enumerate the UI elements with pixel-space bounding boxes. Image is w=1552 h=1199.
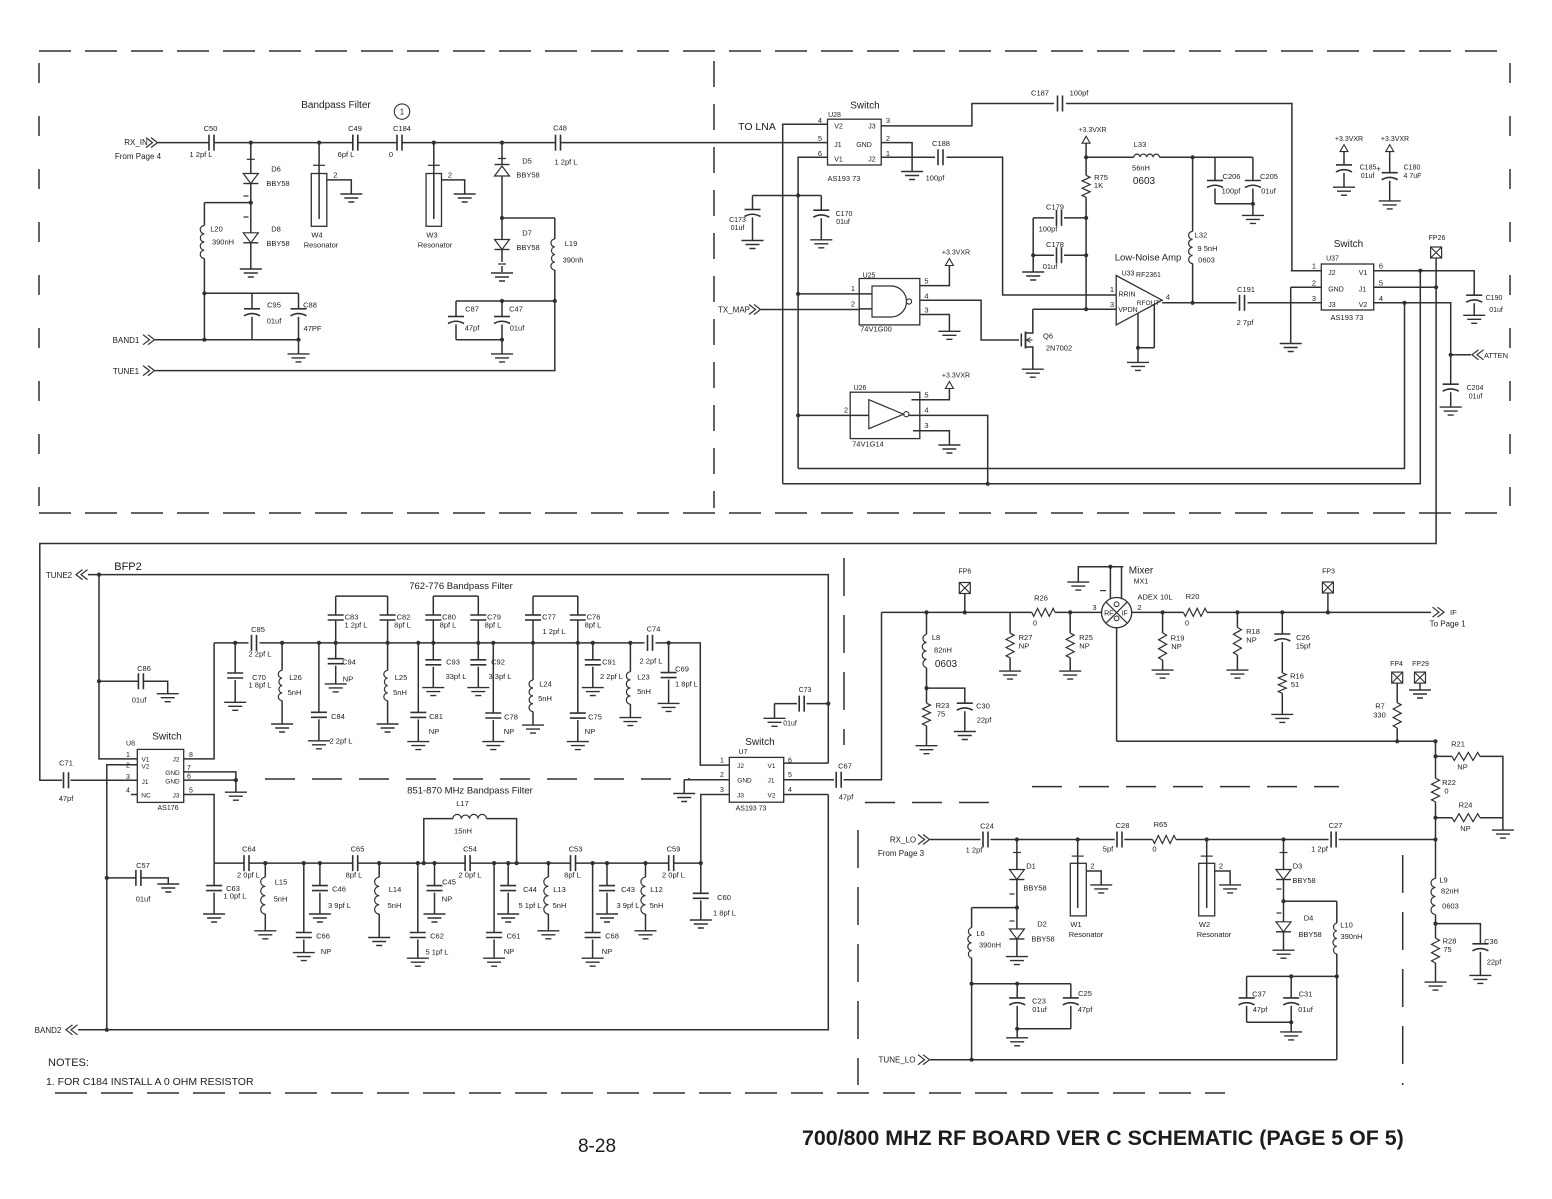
inductor L15 <box>264 863 266 877</box>
capacitor C43 <box>606 863 608 886</box>
svg-text:AS176: AS176 <box>157 805 178 812</box>
page border dashed left <box>38 63 40 506</box>
capacitor C93 <box>432 643 434 660</box>
ground at U37 GND <box>1280 344 1302 352</box>
wire U26 pin4 output <box>909 415 988 483</box>
resonator W1 <box>1077 840 1079 864</box>
svg-text:75: 75 <box>937 710 945 719</box>
svg-text:BAND2: BAND2 <box>35 1026 62 1035</box>
capacitor C188 <box>938 149 943 165</box>
wire V1 line to U26 pin2 <box>798 414 869 416</box>
svg-text:2 0pf L: 2 0pf L <box>662 871 685 880</box>
svg-text:ADEX 10L: ADEX 10L <box>1137 593 1172 602</box>
svg-text:NOTES:: NOTES: <box>48 1057 89 1069</box>
svg-text:AS193 73: AS193 73 <box>1331 313 1364 322</box>
svg-text:2: 2 <box>1312 278 1316 287</box>
svg-text:Switch: Switch <box>1334 239 1363 250</box>
svg-text:5: 5 <box>788 772 792 779</box>
ground under C78 <box>482 742 504 750</box>
svg-text:C53: C53 <box>569 845 583 854</box>
svg-text:FP3: FP3 <box>1322 569 1335 576</box>
svg-text:C37: C37 <box>1252 990 1266 999</box>
ground under C91 <box>582 688 604 696</box>
svg-text:6: 6 <box>818 149 822 158</box>
power +3.3VXR at C185 <box>1340 145 1348 152</box>
svg-text:From Page 3: From Page 3 <box>878 849 925 858</box>
svg-text:+3.3VXR: +3.3VXR <box>1335 136 1363 143</box>
resistor R24 <box>1436 817 1453 819</box>
svg-text:3: 3 <box>886 116 890 125</box>
svg-text:TUNE_LO: TUNE_LO <box>879 1056 916 1065</box>
inductor L23 <box>629 643 631 672</box>
svg-text:Low-Noise Amp: Low-Noise Amp <box>1115 253 1182 264</box>
svg-text:5nH: 5nH <box>553 901 567 910</box>
svg-text:V1: V1 <box>1359 270 1368 277</box>
svg-text:L13: L13 <box>553 885 566 894</box>
wire C23 C25 bottoms <box>1017 1029 1071 1038</box>
capacitor C31 <box>1290 976 1292 998</box>
capacitor C50 <box>209 135 214 151</box>
svg-text:From Page 4: From Page 4 <box>115 152 162 161</box>
switch U7 body <box>729 757 783 802</box>
capacitor C23 <box>1016 984 1018 998</box>
ground under C204 <box>1440 407 1462 415</box>
svg-text:BBY58: BBY58 <box>516 171 539 180</box>
ground under C173 <box>742 241 764 249</box>
ground under C70 <box>224 702 246 710</box>
capacitor C205 <box>1252 157 1254 180</box>
svg-text:0603: 0603 <box>1133 176 1156 187</box>
wire TUNE_LO line <box>930 1059 1337 1061</box>
wire C188 to LNA RRIN <box>947 157 1117 295</box>
dashed divider between RX filter and LNA sections <box>713 61 715 508</box>
svg-text:C61: C61 <box>507 932 521 941</box>
capacitor C91 <box>592 643 594 660</box>
svg-text:5: 5 <box>924 277 928 286</box>
svg-text:BBY58: BBY58 <box>266 239 289 248</box>
capacitor C75 <box>577 643 579 713</box>
capacitor C66 <box>303 863 305 932</box>
capacitor C62 <box>417 863 419 932</box>
svg-text:NP: NP <box>1171 642 1181 651</box>
wire U37 pin6 V1 to C190 <box>1374 271 1475 296</box>
svg-text:01uf: 01uf <box>1043 262 1059 271</box>
ground at U25 pin3 <box>938 331 960 339</box>
svg-text:2: 2 <box>1137 603 1141 612</box>
ground under C43 <box>596 914 618 922</box>
wire RX_IN main line <box>158 142 828 144</box>
wire rail to C95 C88 <box>204 292 298 294</box>
svg-text:0: 0 <box>389 150 393 159</box>
svg-text:C62: C62 <box>430 932 444 941</box>
power +3.3VXR at U26 <box>945 382 953 389</box>
svg-text:C179: C179 <box>1046 203 1064 212</box>
note callout circle 1 <box>394 104 409 119</box>
capacitor C45 <box>434 863 436 886</box>
wire bypass rail C173 C170 <box>753 195 822 197</box>
svg-text:C94: C94 <box>342 658 356 667</box>
svg-text:L14: L14 <box>389 885 402 894</box>
capacitor C204 <box>1443 383 1459 385</box>
ground under C46 <box>309 914 331 922</box>
svg-text:47pf: 47pf <box>465 324 481 333</box>
svg-text:U26: U26 <box>854 385 867 392</box>
wire mixer LO pin down <box>1116 628 1118 742</box>
svg-text:L15: L15 <box>275 878 288 887</box>
ground under Q6 source <box>1022 369 1044 377</box>
ground under C94 <box>325 684 347 692</box>
inverter U26 74V1G14 <box>850 392 920 438</box>
svg-text:8pf L: 8pf L <box>346 871 363 880</box>
svg-text:5nH: 5nH <box>288 688 302 697</box>
svg-text:5 1pf L: 5 1pf L <box>426 948 449 957</box>
capacitor C82 <box>387 620 389 643</box>
svg-text:U33: U33 <box>1122 271 1135 278</box>
wire U25 pin1 from V1 line <box>798 293 859 295</box>
ground under C63 <box>203 914 225 922</box>
svg-text:5nH: 5nH <box>388 901 402 910</box>
svg-text:5: 5 <box>924 391 928 400</box>
wire RF line into mixer <box>882 611 1102 613</box>
svg-text:0: 0 <box>1152 845 1156 854</box>
capacitor C79 <box>477 620 479 643</box>
svg-text:C191: C191 <box>1237 285 1255 294</box>
wire U8 pin5 J3 to bottom filter rail <box>184 795 214 864</box>
svg-text:22pf: 22pf <box>977 716 993 725</box>
svg-text:C64: C64 <box>242 845 256 854</box>
resistor R19 <box>1162 612 1164 633</box>
svg-text:3 3pf L: 3 3pf L <box>489 672 512 681</box>
svg-text:GND: GND <box>1328 287 1344 294</box>
svg-text:1: 1 <box>1110 285 1114 294</box>
resistor R23 <box>923 703 931 726</box>
nand gate U25 74V1G00 <box>859 279 920 325</box>
wire rail C87 C47 to L19 <box>456 300 555 302</box>
svg-text:4: 4 <box>924 406 928 415</box>
wire U28 pin2 GND <box>881 143 912 172</box>
svg-text:0: 0 <box>1185 619 1189 628</box>
wire D3 D4 junction to L10 <box>1284 900 1337 902</box>
ground at C57 <box>157 884 179 892</box>
svg-text:5: 5 <box>189 788 193 795</box>
resistor R18 <box>1236 612 1238 627</box>
wire rail C23 C25 <box>972 983 1071 985</box>
svg-text:GND: GND <box>165 770 180 777</box>
svg-text:1 8pf L: 1 8pf L <box>675 680 698 689</box>
svg-text:C188: C188 <box>932 139 950 148</box>
wire VPDN to Q6 drain and R75 <box>1033 308 1116 310</box>
svg-text:L12: L12 <box>650 885 663 894</box>
ground under C45 <box>424 914 446 922</box>
capacitor C68 <box>592 863 594 932</box>
svg-text:8pf L: 8pf L <box>394 621 411 630</box>
wire W3 pin 2 to ground <box>442 180 465 194</box>
inductor L25 <box>387 643 389 671</box>
dashed top edge of mixer IF section <box>1032 786 1339 788</box>
ground under D8 <box>240 269 262 277</box>
resonator W2 <box>1206 840 1208 864</box>
svg-text:RRIN: RRIN <box>1118 292 1135 299</box>
svg-text:4: 4 <box>924 291 928 300</box>
svg-text:GND: GND <box>856 142 872 149</box>
svg-text:74V1G00: 74V1G00 <box>860 325 892 334</box>
wire U37 pin2 GND to ground <box>1291 287 1322 343</box>
svg-text:C190: C190 <box>1486 295 1503 302</box>
inductor L14 <box>378 863 380 877</box>
svg-text:+3.3VXR: +3.3VXR <box>1381 136 1409 143</box>
ground at U28 pin2 <box>901 172 923 180</box>
svg-text:U28: U28 <box>828 112 841 119</box>
svg-text:L9: L9 <box>1439 876 1447 885</box>
svg-text:C206: C206 <box>1223 172 1241 181</box>
wire U37 pin1 J2 <box>1291 270 1322 272</box>
wire LNA output RFOUT <box>1162 302 1236 304</box>
capacitor C81 <box>417 643 419 713</box>
ground under R28 <box>1425 982 1447 990</box>
svg-text:C73: C73 <box>799 687 812 694</box>
ground under R23 <box>916 746 938 754</box>
wire rail C37 C31 <box>1247 975 1337 977</box>
ground under R25 <box>1059 671 1081 679</box>
svg-text:2 2pf L: 2 2pf L <box>330 737 353 746</box>
svg-text:BBY58: BBY58 <box>266 179 289 188</box>
svg-text:U37: U37 <box>1326 256 1339 263</box>
port IF To Page 1 <box>1433 607 1445 617</box>
svg-text:RX_LO: RX_LO <box>890 836 916 845</box>
svg-text:C184: C184 <box>393 124 411 133</box>
svg-text:D6: D6 <box>271 165 281 174</box>
wire W4 pin 2 to ground <box>327 180 352 194</box>
wire U8 pin4 NC stub <box>131 794 137 796</box>
capacitor C44 <box>507 863 509 886</box>
svg-text:R21: R21 <box>1451 740 1465 749</box>
inductor L20 <box>203 203 205 226</box>
resonator W4 <box>318 143 320 174</box>
svg-text:C44: C44 <box>523 885 537 894</box>
wire C187 to U37 J2 <box>1066 104 1292 271</box>
ground under C30 <box>954 732 976 740</box>
svg-text:BFP2: BFP2 <box>114 561 142 573</box>
svg-text:01uf: 01uf <box>1469 394 1483 401</box>
ground at mixer top <box>1067 582 1089 590</box>
svg-text:D2: D2 <box>1037 920 1047 929</box>
svg-text:0603: 0603 <box>1198 256 1215 265</box>
ground at W3 pin 2 <box>454 194 476 202</box>
svg-text:VPDN: VPDN <box>1118 307 1137 314</box>
svg-text:390nH: 390nH <box>979 941 1001 950</box>
capacitor C73 <box>775 703 798 705</box>
ground under L12 <box>635 931 657 939</box>
svg-text:5: 5 <box>1379 278 1383 287</box>
wire mixer IF output line <box>1132 611 1431 613</box>
ground under R19 <box>1152 670 1174 678</box>
dashed top edge of LO section <box>865 802 1000 804</box>
svg-text:4: 4 <box>1379 294 1383 303</box>
svg-text:C67: C67 <box>838 762 852 771</box>
wire U7 pin5 J1 to C67 <box>784 779 834 781</box>
svg-text:D3: D3 <box>1293 862 1303 871</box>
node junction D3 D4 <box>1281 899 1285 903</box>
svg-text:1 2pf L: 1 2pf L <box>555 158 578 167</box>
capacitor C48 <box>556 135 561 151</box>
inductor L8 <box>926 612 928 634</box>
svg-text:L32: L32 <box>1195 231 1208 240</box>
wire FP6 to RF line <box>964 594 966 613</box>
resistor R75 <box>1085 143 1087 175</box>
ground under C84 <box>308 741 330 749</box>
dashed border bottom of page <box>55 1092 1225 1094</box>
svg-text:2 0pf L: 2 0pf L <box>237 871 260 880</box>
svg-text:5nH: 5nH <box>274 895 288 904</box>
wire U28 pin1 J2 to C188 <box>881 156 935 158</box>
svg-text:C170: C170 <box>836 211 853 218</box>
ground under D2 <box>1006 957 1028 965</box>
svg-text:6: 6 <box>1379 262 1383 271</box>
svg-text:2 0pf L: 2 0pf L <box>459 871 482 880</box>
ground under L13 <box>537 931 559 939</box>
svg-text:V1: V1 <box>834 157 843 164</box>
resistor R28 <box>1435 924 1437 939</box>
svg-text:9 5nH: 9 5nH <box>1197 244 1217 253</box>
wire L33 to C206 C205 rail <box>1193 156 1253 158</box>
switch U8 body AS176 <box>137 749 183 802</box>
svg-text:100pf: 100pf <box>1039 225 1059 234</box>
svg-text:01uf: 01uf <box>1261 187 1277 196</box>
svg-text:GND: GND <box>737 777 752 784</box>
svg-text:2 7pf: 2 7pf <box>1237 318 1255 327</box>
svg-text:TUNE2: TUNE2 <box>46 571 73 580</box>
page border dashed right <box>1509 63 1511 506</box>
svg-text:47pf: 47pf <box>839 793 855 802</box>
svg-text:J1: J1 <box>142 779 149 786</box>
svg-text:5nH: 5nH <box>393 688 407 697</box>
svg-text:C57: C57 <box>136 861 150 870</box>
svg-text:IF: IF <box>1450 608 1457 617</box>
svg-text:BBY58: BBY58 <box>1292 876 1315 885</box>
svg-text:1: 1 <box>126 752 130 759</box>
svg-text:L10: L10 <box>1340 921 1353 930</box>
svg-text:C91: C91 <box>602 658 616 667</box>
wire L10 to TUNE_LO <box>1336 976 1338 1059</box>
svg-text:Switch: Switch <box>152 732 181 743</box>
resistor R65 <box>1153 836 1177 844</box>
svg-text:Bandpass Filter: Bandpass Filter <box>301 100 371 111</box>
svg-text:C30: C30 <box>976 702 990 711</box>
svg-text:01uf: 01uf <box>510 324 526 333</box>
svg-text:75: 75 <box>1443 945 1451 954</box>
capacitor C86 <box>99 680 138 682</box>
svg-text:C93: C93 <box>446 658 460 667</box>
svg-text:W3: W3 <box>426 231 437 240</box>
svg-text:C46: C46 <box>332 885 346 894</box>
svg-text:FP29: FP29 <box>1412 661 1429 668</box>
capacitor C61 <box>493 863 495 932</box>
node junction D1 D2 <box>1015 906 1019 910</box>
svg-text:C49: C49 <box>348 124 362 133</box>
resistor R16 <box>1278 673 1286 693</box>
capacitor C27 <box>1331 832 1336 848</box>
svg-text:4 7uF: 4 7uF <box>1404 173 1422 180</box>
capacitor C180 polarized <box>1389 152 1391 173</box>
wire C179 C178 common to ground <box>1032 218 1034 272</box>
svg-text:J3: J3 <box>737 792 744 799</box>
svg-text:J1: J1 <box>1359 287 1367 294</box>
svg-text:C85: C85 <box>251 625 265 634</box>
svg-text:4: 4 <box>1166 293 1170 302</box>
svg-text:+3.3VXR: +3.3VXR <box>942 250 970 257</box>
wire control line V1 across <box>798 303 1404 469</box>
svg-text:TUNE1: TUNE1 <box>113 367 140 376</box>
svg-text:R24: R24 <box>1459 801 1473 810</box>
power +3.3VXR at U25 <box>945 259 953 266</box>
capacitor C70 <box>234 643 236 673</box>
ground under R27 <box>999 671 1021 679</box>
svg-text:TO LNA: TO LNA <box>738 121 776 133</box>
svg-text:C173: C173 <box>729 217 746 224</box>
capacitor C24 <box>983 832 988 848</box>
svg-text:MX1: MX1 <box>1134 579 1149 586</box>
svg-text:3: 3 <box>1312 294 1316 303</box>
svg-text:ATTEN: ATTEN <box>1484 351 1508 360</box>
svg-text:C65: C65 <box>351 845 365 854</box>
svg-text:NP: NP <box>504 727 514 736</box>
dashed left edge of LO section <box>857 830 859 1085</box>
svg-text:NP: NP <box>321 947 331 956</box>
ground under C190 <box>1463 315 1485 323</box>
varactor diode D1 <box>1016 840 1018 870</box>
svg-text:D5: D5 <box>522 157 532 166</box>
svg-text:C204: C204 <box>1467 385 1484 392</box>
svg-text:L26: L26 <box>289 673 302 682</box>
capacitor C74 <box>648 635 653 651</box>
inductor L10 <box>1336 901 1338 923</box>
svg-text:1 2pf: 1 2pf <box>1311 845 1329 854</box>
wire W2 pin2 to ground <box>1215 871 1230 885</box>
ground under C92 <box>467 688 489 696</box>
svg-text:R7: R7 <box>1375 702 1385 711</box>
svg-text:C75: C75 <box>588 713 602 722</box>
wire U28 pin6 V1 control <box>798 157 827 468</box>
svg-text:W4: W4 <box>311 231 322 240</box>
svg-text:D1: D1 <box>1026 862 1036 871</box>
svg-text:01uf: 01uf <box>267 317 283 326</box>
svg-text:6pf L: 6pf L <box>338 150 355 159</box>
svg-text:L33: L33 <box>1134 140 1147 149</box>
svg-text:+3.3VXR: +3.3VXR <box>942 373 970 380</box>
svg-text:390nH: 390nH <box>1340 932 1362 941</box>
capacitor C83 and bridge <box>335 620 337 643</box>
svg-text:C45: C45 <box>442 878 456 887</box>
svg-text:2: 2 <box>886 134 890 143</box>
power +3.3VXR above R75 <box>1082 136 1090 143</box>
svg-text:Switch: Switch <box>850 101 879 112</box>
ground under L26 <box>271 724 293 732</box>
svg-text:C68: C68 <box>605 932 619 941</box>
svg-text:3: 3 <box>1092 603 1096 612</box>
capacitor C173 <box>752 196 754 210</box>
wire U37 pin5 J1 <box>1374 286 1436 288</box>
svg-text:R65: R65 <box>1154 820 1168 829</box>
svg-text:8: 8 <box>189 752 193 759</box>
ground under C62 <box>407 958 429 966</box>
wire mixer top pins to ground <box>1078 567 1123 600</box>
svg-text:5: 5 <box>818 134 822 143</box>
capacitor C92 <box>477 643 479 660</box>
mixer MX1 symbol <box>1102 598 1132 628</box>
svg-text:W2: W2 <box>1199 920 1210 929</box>
svg-text:RFOUT: RFOUT <box>1137 300 1159 307</box>
capacitor C28 <box>1117 832 1122 848</box>
